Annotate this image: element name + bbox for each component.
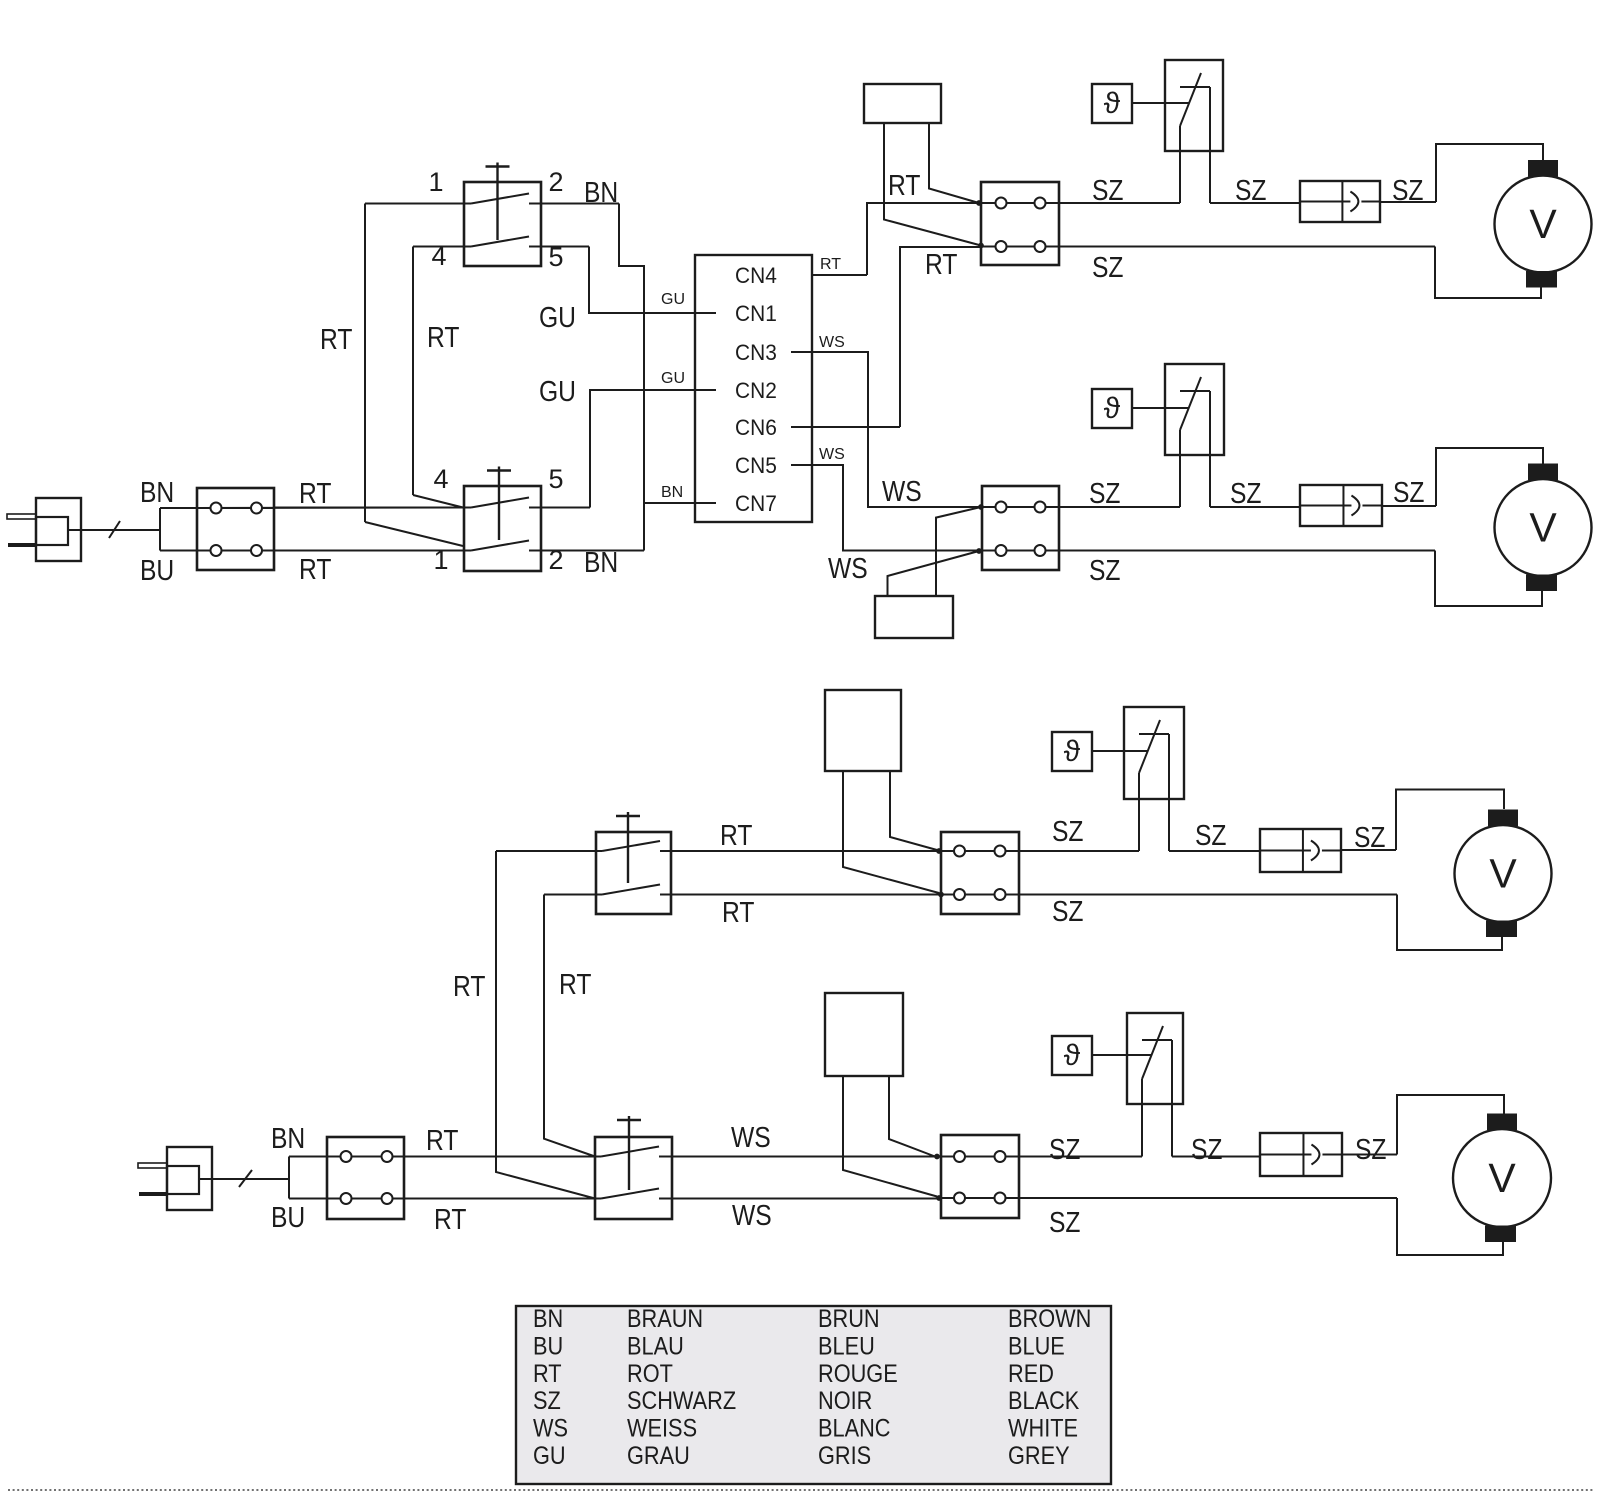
svg-text:GRAU: GRAU [627,1442,690,1470]
svg-text:1: 1 [433,545,448,575]
svg-text:SZ: SZ [1049,1206,1080,1238]
wire BN plug2 to suppressor X4 [289,1156,327,1158]
svg-text:RT: RT [720,819,752,851]
pin CN4 stub [812,274,867,276]
thermal fuse F8 [1260,1133,1342,1176]
svg-text:SZ: SZ [1092,174,1123,206]
entry node vertical [288,1157,290,1199]
svg-text:V: V [1488,1155,1516,1201]
svg-text:4: 4 [431,241,446,271]
svg-text:SZ: SZ [1230,477,1261,509]
svg-text:BLACK: BLACK [1008,1387,1080,1415]
svg-text:BN: BN [533,1305,563,1333]
svg-text:WS: WS [732,1199,772,1231]
capacitor C4 left lead [843,1076,937,1197]
capacitor C2 right lead [936,507,981,596]
svg-text:SZ: SZ [1392,174,1423,206]
wire to motor M1 (bottom loop) [1435,247,1541,299]
wire SZ terminal X6 to motor M4 (bottom) [1019,1197,1397,1199]
thermal fuse F6 [1260,829,1341,872]
wire to motor M2 (top loop) [1436,448,1543,506]
svg-text:GU: GU [539,301,576,333]
wire BN: branch to CN7 [644,502,716,504]
terminal block X6 [941,1135,1019,1218]
svg-text:SZ: SZ [1191,1133,1222,1165]
svg-text:CN3: CN3 [735,339,777,365]
switch S4 body [595,1137,672,1219]
svg-text:GU: GU [661,370,685,387]
switch S3 bottom contact [544,894,602,896]
svg-text:GU: GU [539,375,576,407]
entry node vertical [159,508,161,551]
thermal fuse F2 [1300,181,1380,222]
wire to motor M3 (bottom loop) [1397,895,1502,951]
svg-text:2: 2 [548,167,563,197]
capacitor C1 left lead [884,123,981,246]
svg-text:CN4: CN4 [735,262,777,288]
svg-text:WS: WS [819,334,845,351]
wire GU: S2 pin5 to CN2 [590,390,716,508]
wire SZ fuse F4 to motor M2 [1382,505,1436,507]
switch S3 body [596,832,671,914]
svg-text:BN: BN [661,484,683,501]
motor M4 [1453,1129,1551,1227]
thermal cut-out F3 : contact arm [1180,377,1201,430]
legend box [516,1306,1111,1484]
svg-text:BN: BN [584,546,618,578]
cable break slash [239,1170,252,1187]
svg-text:RT: RT [722,896,754,928]
wire SZ fuse F2 to motor M1 [1380,201,1436,203]
thermal cut-out F5 : contact box [1124,707,1184,799]
svg-text:SZ: SZ [1089,554,1120,586]
svg-text:ROT: ROT [627,1359,673,1387]
svg-text:WHITE: WHITE [1008,1414,1078,1442]
wire SZ thermal F5 to fuse F6 [1169,850,1260,852]
motor M3 [1455,825,1552,922]
terminal block X3 [982,486,1059,570]
svg-text:WS: WS [533,1414,568,1442]
thermal cut-out F3 : capillary link [1132,407,1189,409]
svg-text:ϑ: ϑ [1104,392,1121,425]
connector CN body [695,255,812,522]
switch S2 contact 1-2 [274,550,471,552]
wire RT riser C: switch S3 top contact down to switch S4 [496,851,595,1199]
svg-text:CN7: CN7 [735,490,777,516]
faint scan artifact line at bottom [8,1489,1594,1491]
switch S3 actuator [616,815,640,817]
wire SZ terminal X3 to thermal F3 [1059,506,1180,508]
svg-text:BN: BN [140,476,174,508]
wire RT suppressor X4 to switch S4 (bottom) [327,1198,601,1200]
motor M1 [1495,176,1592,273]
thermal cut-out F1 : contact box [1165,60,1223,151]
svg-text:RT: RT [888,169,920,201]
pin CN3 stub [791,351,868,353]
svg-text:RT: RT [925,248,957,280]
wire RT: CN6 to terminal X2 lower row [900,247,981,427]
thermal cut-out F1 : capillary link [1132,102,1189,104]
svg-text:SZ: SZ [1355,1133,1386,1165]
svg-text:CN2: CN2 [735,377,777,403]
svg-text:RT: RT [320,323,352,355]
switch S2 actuator [487,469,511,471]
switch S1 contact 1-2 [365,203,471,205]
svg-text:GRIS: GRIS [818,1442,871,1470]
svg-text:BLUE: BLUE [1008,1332,1065,1360]
thermal cut-out F3 : poles [1179,430,1181,507]
svg-text:ϑ: ϑ [1104,87,1121,120]
wire BN: S1 pin2 staircase to BN bus [619,204,644,551]
wire SZ terminal X5 to thermal F5 [1019,850,1139,852]
wire BU plug to suppressor X1 [160,550,197,552]
switch S2 contact 4-5 [274,507,471,509]
svg-text:RT: RT [453,970,485,1002]
wire SZ thermal F1 to fuse F2 [1210,202,1300,204]
capacitor C1 body [864,84,941,123]
switch S4 top contact [404,1156,601,1158]
capacitor C3 body [825,690,901,771]
svg-text:BN: BN [271,1122,305,1154]
thermal cut-out F1 : contact arm [1180,73,1201,126]
thermal cut-out F7 : poles [1141,1079,1143,1157]
wire to motor M1 (top loop) [1436,144,1543,202]
svg-text:WS: WS [828,552,868,584]
svg-text:5: 5 [548,464,563,494]
pin CN5 stub [791,464,843,466]
svg-text:ROUGE: ROUGE [818,1359,898,1387]
svg-text:RT: RT [820,256,841,273]
wire SZ thermal F7 to fuse F8 [1172,1156,1260,1158]
svg-text:V: V [1529,201,1557,247]
wire to motor M4 (bottom loop) [1397,1198,1503,1255]
wire to motor M3 (top loop) [1396,790,1504,851]
wire BN plug to suppressor X1 [160,507,197,509]
wire RT suppressor X1 to switch S2 (top) [197,507,463,510]
svg-text:BRUN: BRUN [818,1305,880,1333]
svg-text:ϑ: ϑ [1064,1039,1081,1072]
svg-text:4: 4 [433,464,448,494]
svg-text:SZ: SZ [1049,1133,1080,1165]
wire SZ thermal F3 to fuse F4 [1210,506,1300,508]
svg-text:RT: RT [434,1203,466,1235]
svg-text:SZ: SZ [1052,815,1083,847]
thermal cut-out F7 : capillary link [1092,1054,1152,1056]
thermal cut-out F1 : sensor box [1092,84,1132,123]
svg-text:ϑ: ϑ [1064,735,1081,768]
svg-text:5: 5 [548,242,563,272]
svg-text:RT: RT [427,321,459,353]
svg-text:NOIR: NOIR [818,1387,872,1415]
capacitor C4 body [825,993,903,1076]
switch S1 contact 4-5 [413,246,471,248]
svg-text:GREY: GREY [1008,1442,1070,1470]
wire WS: CN3 to terminal X3 top [791,352,982,507]
cable break slash [109,521,120,538]
switch S1 actuator [486,165,510,167]
svg-text:BU: BU [140,554,174,586]
svg-text:BRAUN: BRAUN [627,1305,703,1333]
capacitor C2 body [875,596,953,638]
svg-text:BLEU: BLEU [818,1332,875,1360]
svg-text:RED: RED [1008,1359,1054,1387]
thermal cut-out F5 : sensor box [1052,732,1092,771]
wire SZ terminal X3 to motor M2 (bottom) [1059,550,1435,552]
svg-text:SZ: SZ [533,1387,561,1415]
svg-text:SZ: SZ [1089,477,1120,509]
thermal cut-out F7 : sensor box [1052,1036,1092,1075]
wire SZ fuse F6 to motor M3 [1341,849,1396,851]
svg-text:SZ: SZ [1195,819,1226,851]
svg-text:WS: WS [819,446,845,463]
thermal cut-out F5 : poles [1138,773,1140,851]
wire RT riser B: switch S1 pin4 down to switch S2 pin4 [412,247,414,496]
pin CN6 stub [791,426,900,428]
svg-text:1: 1 [428,167,443,197]
thermal cut-out F5 : contact arm [1139,720,1160,773]
capacitor C2 left lead [888,551,980,596]
wire to motor M4 (top loop) [1397,1095,1504,1155]
svg-text:WS: WS [731,1121,771,1153]
capacitor C1 right lead [929,123,979,203]
wire RT riser D: switch S3 bottom contact down to switch S4 [544,895,595,1157]
wire RT: CN4 riser and run to terminal X2 [867,203,1180,275]
thermal cut-out F7 : contact arm [1142,1026,1163,1079]
svg-text:CN6: CN6 [735,414,777,440]
svg-text:BLAU: BLAU [627,1332,684,1360]
svg-text:V: V [1529,505,1557,551]
thermal cut-out F1 : poles [1179,126,1181,203]
svg-text:RT: RT [559,968,591,1000]
svg-text:BN: BN [584,176,618,208]
wire BU plug2 to suppressor X4 [289,1198,327,1200]
switch S3 top contact [496,850,602,852]
svg-text:SZ: SZ [1052,895,1083,927]
svg-text:BU: BU [271,1201,305,1233]
wire RT riser A: switch S1 pin1 down to switch S2 pin1 [364,204,366,523]
wire WS: CN5 to terminal X3 bottom [791,465,982,551]
wire GU: S1 pin5 to CN1 [589,247,716,314]
svg-text:RT: RT [299,477,331,509]
thermal cut-out F3 : contact box [1165,364,1224,455]
svg-text:BU: BU [533,1332,563,1360]
svg-text:SZ: SZ [1092,251,1123,283]
svg-text:2: 2 [548,545,563,575]
capacitor C3 left lead [843,771,939,893]
svg-text:RT: RT [533,1359,562,1387]
svg-text:BROWN: BROWN [1008,1305,1091,1333]
mains plug P2 [167,1147,212,1210]
thermal cut-out F3 : sensor box [1092,389,1132,428]
thermal cut-out F5 : capillary link [1092,750,1148,752]
capacitor C3 right lead [890,771,937,850]
wire to motor M2 (bottom loop) [1435,551,1542,607]
svg-text:GU: GU [661,291,685,308]
svg-text:WEISS: WEISS [627,1414,697,1442]
svg-text:WS: WS [882,475,922,507]
switch S4 bottom contact [404,1198,601,1200]
interference suppressor X4 [327,1137,404,1219]
switch S2 body [464,486,541,571]
interference suppressor X1 [197,488,274,570]
motor M2 [1495,479,1592,576]
svg-text:SZ: SZ [1393,476,1424,508]
terminal block X5 [941,832,1019,914]
svg-text:SZ: SZ [1235,174,1266,206]
switch S4 actuator [617,1119,641,1121]
switch S1 body [464,182,541,266]
thermal fuse F4 [1300,485,1382,526]
wire SZ terminal X5 to motor M3 (bottom) [1019,894,1397,896]
thermal cut-out F7 : contact box [1127,1013,1183,1104]
wire RT suppressor X4 to switch S4 (top) [327,1156,601,1158]
svg-text:RT: RT [299,553,331,585]
svg-text:CN1: CN1 [735,300,777,326]
svg-text:CN5: CN5 [735,452,777,478]
terminal block X2 [981,182,1059,265]
wire SZ terminal X6 to thermal F7 [1019,1156,1142,1158]
wire SZ terminal X2 to motor M1 (bottom) [1059,246,1435,248]
svg-text:GU: GU [533,1442,566,1470]
svg-text:SZ: SZ [1354,821,1385,853]
svg-text:SCHWARZ: SCHWARZ [627,1387,736,1415]
svg-text:BLANC: BLANC [818,1414,891,1442]
mains plug P1 [36,498,81,561]
wire RT suppressor X1 to switch S2 (bottom) [197,550,463,552]
svg-text:RT: RT [426,1124,458,1156]
cord from plug P2 [199,1178,289,1180]
wire SZ terminal X2 to thermal F1 (gap under switch) [1059,202,1180,204]
cord from plug P1 [68,529,160,531]
svg-text:V: V [1489,851,1517,897]
wire SZ fuse F8 to motor M4 [1342,1154,1397,1156]
capacitor C4 right lead [889,1076,935,1157]
